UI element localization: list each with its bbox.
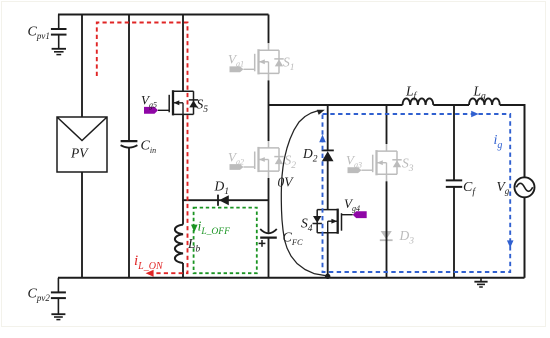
wire bus S2 lower: [268, 178, 270, 232]
svg-text:S5: S5: [197, 97, 209, 116]
wire PV bottom: [81, 172, 83, 278]
svg-text:PV: PV: [70, 146, 89, 161]
wire bottom rail: [58, 277, 525, 279]
svg-text:D2: D2: [302, 146, 318, 165]
wire output rail: [269, 104, 403, 106]
current loop ig (blue dashed): [323, 114, 511, 272]
transistor S1 (inactive): [259, 49, 280, 51]
0V annotation arc: [281, 111, 327, 276]
svg-text:Vg1: Vg1: [228, 52, 244, 69]
inductor Lb: [182, 200, 184, 225]
plus sign CFC: [259, 242, 266, 244]
wire S3 upper: [386, 105, 388, 144]
capacitor CFC: [260, 229, 277, 233]
capacitor Cin: [121, 140, 138, 142]
PV panel: [57, 117, 107, 172]
svg-text:Cf: Cf: [463, 180, 476, 198]
transistor S3 (inactive): [377, 150, 398, 152]
wire gray ext S3: [386, 144, 388, 151]
transistor S2 (inactive): [259, 147, 280, 149]
diode D2: [322, 149, 334, 151]
wire Cin bottom: [128, 148, 130, 278]
wire Cf top: [453, 105, 455, 180]
wire gray ext S2: [268, 141, 270, 148]
capacitor Cpv1: [58, 15, 60, 29]
wire Cf bottom: [453, 187, 455, 277]
wire D1 branch: [183, 199, 269, 201]
wire D2-S4: [327, 161, 329, 210]
svg-text:0V: 0V: [278, 175, 295, 190]
source Vg: [515, 177, 535, 197]
diode D3 (inactive): [381, 231, 392, 239]
svg-text:S3: S3: [402, 156, 414, 175]
svg-text:iL_OFF: iL_OFF: [198, 220, 231, 238]
svg-text:Cin: Cin: [141, 139, 157, 156]
inductor Lf: [403, 98, 434, 105]
ground for Cpv1: [52, 48, 66, 50]
wire CFC bottom: [268, 238, 270, 278]
wire S3 lower: [386, 181, 388, 277]
junction dot: [325, 274, 330, 279]
inductor Lg: [469, 98, 500, 105]
svg-text:S1: S1: [283, 55, 295, 74]
svg-text:Vg5: Vg5: [141, 93, 157, 110]
svg-text:D1: D1: [214, 179, 230, 198]
svg-text:S4: S4: [301, 216, 313, 235]
wire Lf-Lg: [433, 104, 469, 106]
wire Lg-corner: [500, 104, 525, 106]
svg-text:iL_ON: iL_ON: [134, 253, 164, 272]
wire Cin top: [128, 15, 130, 141]
svg-text:D3: D3: [399, 228, 415, 247]
svg-text:Cpv2: Cpv2: [28, 287, 51, 304]
wire D2 upper: [327, 105, 329, 151]
capacitor Cf: [446, 179, 462, 181]
transistor S4: [317, 209, 338, 211]
wire Vg bottom: [524, 197, 526, 277]
current loop iL_ON (red dashed): [97, 23, 188, 274]
svg-text:Vg: Vg: [497, 179, 510, 196]
wire bus S1-S2: [268, 80, 270, 141]
wire S5 drain: [182, 15, 184, 92]
svg-text:Vg3: Vg3: [346, 153, 362, 170]
wire gray ext S1: [268, 43, 270, 50]
ground output: [480, 278, 482, 282]
svg-text:ig: ig: [494, 133, 503, 151]
diode D1: [217, 195, 219, 206]
wire bus S1 upper: [268, 15, 270, 44]
current loop iL_OFF (green dashed): [194, 208, 257, 274]
svg-text:Vg2: Vg2: [228, 150, 244, 167]
wire PV top: [81, 15, 83, 118]
svg-text:Cpv1: Cpv1: [28, 25, 50, 42]
ground for Cpv2: [51, 313, 65, 315]
wire S4 source: [327, 233, 329, 278]
svg-text:S2: S2: [285, 153, 297, 172]
wire S5 source: [182, 114, 184, 201]
svg-text:Vg4: Vg4: [344, 196, 360, 213]
wire top rail: [58, 14, 269, 16]
transistor S5: [173, 90, 194, 92]
capacitor Cpv2: [57, 278, 59, 292]
